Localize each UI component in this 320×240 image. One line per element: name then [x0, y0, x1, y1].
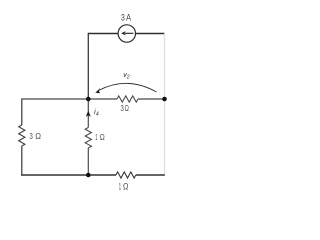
wire: middle horizontal right segment y=99 — [138, 98, 165, 100]
node junction dot bottom — [86, 173, 91, 178]
svg-text:3: 3 — [121, 103, 124, 113]
wire: left rail upper x=22 — [21, 98, 23, 125]
svg-text:Ω: Ω — [123, 182, 128, 192]
svg-text:Ω: Ω — [100, 132, 105, 142]
svg-text:3: 3 — [121, 12, 125, 22]
current source arrow (pointing left) — [125, 32, 134, 34]
svg-text:i4: i4 — [94, 107, 99, 118]
svg-text:A: A — [126, 12, 132, 22]
current source I1 3A circle — [118, 25, 135, 42]
wire: middle vertical lower x=88.5 — [87, 148, 89, 175]
svg-text:1: 1 — [95, 132, 97, 142]
node junction dot left-middle — [86, 97, 91, 102]
wire: right rail (light) x=164.5 from top wire to bottom wire — [164, 34, 166, 176]
wire: middle vertical upper x=88.5 — [87, 99, 89, 128]
voltage arc v2 over middle resistor (arrow to left) — [99, 83, 157, 92]
svg-text:3: 3 — [30, 131, 33, 141]
node junction dot right-middle — [162, 97, 167, 102]
svg-text:Ω: Ω — [125, 103, 129, 113]
svg-text:1: 1 — [119, 182, 121, 192]
wire: inner-left vertical x=88 from top wire to middle node — [87, 33, 89, 99]
current arrow i4 on middle vertical wire — [86, 111, 91, 117]
wire: bottom wire left segment y=175 — [21, 174, 116, 176]
resistor R 3ohm horizontal (middle) zigzag — [117, 96, 138, 102]
wire: left rail lower x=22 — [21, 146, 23, 176]
wire: top wire y=33.5 from inner-left vertical to right rail — [88, 33, 165, 35]
wire: middle horizontal left segment y=99 — [22, 98, 117, 100]
svg-text:Ω: Ω — [35, 131, 41, 141]
resistor R 3ohm vertical (left) zigzag — [19, 125, 25, 146]
svg-text:v2: v2 — [123, 72, 130, 81]
resistor R 1ohm vertical (middle) zigzag — [85, 128, 91, 148]
resistor R 1ohm horizontal (bottom) zigzag — [116, 172, 136, 178]
wire: bottom wire right segment y=175 — [136, 174, 165, 176]
